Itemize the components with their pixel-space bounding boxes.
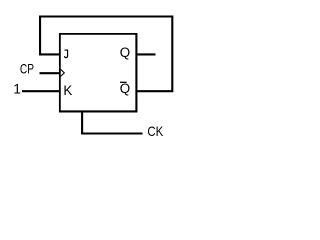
svg-text:K: K: [63, 83, 72, 98]
svg-text:Q: Q: [120, 81, 130, 96]
svg-text:1: 1: [13, 82, 21, 97]
svg-text:CK: CK: [147, 124, 163, 139]
svg-text:CP: CP: [20, 62, 34, 77]
svg-text:Q: Q: [120, 45, 130, 60]
